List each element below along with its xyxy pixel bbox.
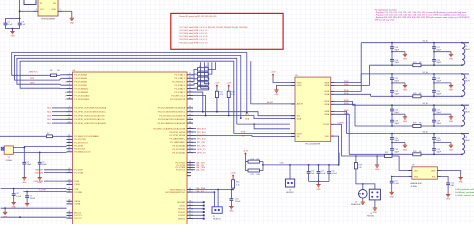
svg-text:31: 31 [189, 73, 191, 75]
svg-text:41: 41 [189, 114, 191, 116]
svg-text:P6.4/CB4/A4: P6.4/CB4/A4 [74, 74, 87, 77]
svg-text:18pF: 18pF [394, 81, 399, 83]
svg-text:P4.3/PM_UCB1STE/UCA1CLK: P4.3/PM_UCB1STE/UCA1CLK [74, 118, 105, 121]
svg-text:Board ID given by R1, R2, R3,: Board ID given by R1, R2, R3, R4, R5 [180, 15, 218, 18]
svg-text:40: 40 [189, 110, 191, 112]
svg-text:60: 60 [189, 207, 191, 209]
svg-text:LDC1614 addr EVM: 0 0 1 0 0: LDC1614 addr EVM: 0 0 1 0 0 [180, 35, 209, 38]
svg-text:GND: GND [446, 199, 451, 201]
svg-text:P2.0/TA1.1: P2.0/TA1.1 [174, 74, 186, 77]
svg-text:4: 4 [69, 83, 70, 85]
svg-text:44: 44 [189, 127, 191, 129]
svg-text:35: 35 [189, 87, 191, 89]
svg-text:3: 3 [69, 80, 70, 82]
svg-text:P5.5/XOUT: P5.5/XOUT [74, 149, 86, 151]
svg-text:C=DNI(std.): osc disabled ext: C=DNI(std.): osc disabled ext [455, 191, 474, 194]
svg-text:LDC1612 addr EVM: 0 0 0 1 0: LDC1612 addr EVM: 0 0 0 1 0 [180, 29, 209, 32]
svg-text:43: 43 [189, 121, 191, 123]
svg-text:18: 18 [68, 147, 70, 149]
svg-text:CLKIN: CLKIN [323, 124, 330, 126]
svg-text:R6: R6 [50, 70, 52, 72]
svg-text:L8: L8 [465, 137, 467, 139]
svg-text:LDC1614 addr EVM: 0 0 0 1 1: LDC1614 addr EVM: 0 0 0 1 1 [180, 32, 209, 35]
svg-text:VCC: VCC [40, 9, 45, 11]
svg-text:23: 23 [68, 183, 70, 185]
svg-text:P4.6/PM_NONE: P4.6/PM_NONE [169, 132, 185, 134]
svg-text:22: 22 [68, 179, 70, 181]
svg-text:P7.3/CB11/A15: P7.3/CB11/A15 [74, 98, 90, 101]
svg-text:P5.1/ADC12CLK/DMAE0: P5.1/ADC12CLK/DMAE0 [74, 135, 99, 138]
svg-text:42: 42 [189, 118, 191, 120]
svg-text:AVCC1: AVCC1 [74, 212, 82, 215]
svg-text:P3.2/UCB0CLK/UCA0STE: P3.2/UCB0CLK/UCA0STE [159, 114, 185, 117]
svg-text:HDR1X2: HDR1X2 [213, 219, 220, 221]
svg-text:PUR: PUR [74, 181, 79, 183]
svg-text:PU.1/DM: PU.1/DM [74, 172, 83, 174]
svg-text:51: 51 [189, 151, 191, 153]
svg-text:7: 7 [69, 94, 70, 96]
svg-text:RTB: RTB [30, 78, 35, 80]
svg-text:10: 10 [68, 110, 70, 112]
svg-text:48: 48 [189, 141, 191, 143]
svg-text:P3.3/UCA0TXD/UCA0SIMO: P3.3/UCA0TXD/UCA0SIMO [158, 118, 186, 121]
svg-text:VDD: VDD [325, 136, 330, 138]
svg-text:DVSS2: DVSS2 [178, 215, 186, 217]
svg-text:SD: SD [297, 136, 300, 138]
svg-text:P3.0/UCB0SIMO/UCB0SDA: P3.0/UCB0SIMO/UCB0SDA [158, 107, 186, 110]
svg-text:R28: R28 [413, 123, 416, 125]
svg-text:38: 38 [189, 97, 191, 99]
svg-text:SDA: SDA [245, 118, 250, 121]
svg-text:18pF: 18pF [394, 140, 399, 142]
svg-text:33pF: 33pF [436, 62, 441, 64]
svg-text:HDR1X2: HDR1X2 [286, 192, 293, 194]
svg-text:VBUS: VBUS [74, 201, 80, 203]
svg-text:INT_CH2: INT_CH2 [197, 146, 206, 148]
svg-text:+3.3V: +3.3V [214, 83, 220, 85]
svg-text:VDD: VDD [280, 163, 285, 165]
svg-text:DNI: DNI [451, 185, 455, 187]
svg-text:GND: GND [38, 182, 43, 184]
svg-text:P6.0/CB0/A0: P6.0/CB0/A0 [173, 145, 186, 148]
svg-text:GND: GND [390, 197, 395, 199]
svg-text:LDC1612 addr EVM: 0 0 0 0 1 (R: LDC1612 addr EVM: 0 0 0 0 1 (R1=0R, R2=0… [180, 26, 248, 29]
svg-text:4.7uF: 4.7uF [16, 196, 22, 198]
svg-text:18pF: 18pF [436, 112, 441, 114]
svg-text:GND: GND [10, 36, 15, 38]
svg-text:VSSU: VSSU [74, 184, 80, 186]
svg-text:AVSS1: AVSS1 [178, 208, 186, 211]
svg-text:11: 11 [68, 114, 70, 116]
svg-text:SDA: SDA [297, 117, 302, 120]
svg-text:GND: GND [52, 9, 57, 11]
svg-text:P5.6/ADC12CLK: P5.6/ADC12CLK [74, 151, 91, 154]
svg-text:PU.0/DP: PU.0/DP [74, 170, 83, 172]
svg-text:37: 37 [189, 94, 191, 96]
svg-text:R7: R7 [47, 133, 49, 135]
svg-text:36: 36 [189, 90, 191, 92]
svg-text:P2.6/RTCCLK: P2.6/RTCCLK [171, 95, 185, 97]
svg-text:SBWTCK: SBWTCK [29, 71, 38, 73]
svg-text:P3.4/UCA0RXD/UCA0SOMI: P3.4/UCA0RXD/UCA0SOMI [158, 122, 186, 125]
svg-text:R26: R26 [413, 93, 416, 95]
svg-text:GND: GND [229, 211, 234, 213]
svg-text:P4.1/PM_UCB1SOMI/UCB1SCL: P4.1/PM_UCB1SOMI/UCB1SCL [74, 112, 107, 114]
svg-text:220nF: 220nF [235, 201, 241, 203]
svg-text:18uH: 18uH [465, 49, 470, 51]
svg-text:8: 8 [69, 97, 70, 99]
svg-text:39: 39 [189, 106, 191, 108]
svg-text:27: 27 [68, 202, 70, 204]
svg-text:GND: GND [431, 171, 436, 173]
svg-text:IN0A: IN0A [324, 84, 329, 87]
svg-text:P7.0/CB8/A12: P7.0/CB8/A12 [74, 87, 89, 90]
svg-text:16: 16 [68, 141, 70, 143]
svg-text:4: 4 [36, 9, 37, 11]
svg-text:RF2_SD2: RF2_SD2 [197, 132, 207, 134]
svg-text:33: 33 [189, 80, 191, 82]
svg-text:33pF: 33pF [436, 93, 441, 95]
svg-text:47: 47 [189, 137, 191, 139]
svg-text:P4.2/PM_UCB1CLK/UCA1STE: P4.2/PM_UCB1CLK/UCA1STE [74, 114, 105, 117]
svg-text:VSSU: VSSU [179, 205, 185, 207]
svg-text:25: 25 [68, 190, 70, 192]
svg-text:L5: L5 [465, 46, 467, 48]
svg-text:R30: R30 [413, 151, 416, 153]
svg-text:58: 58 [189, 201, 191, 203]
svg-text:GND: GND [403, 149, 408, 151]
svg-text:GND: GND [375, 169, 380, 171]
svg-text:34: 34 [189, 83, 191, 85]
svg-text:INTB: INTB [297, 133, 303, 135]
svg-text:61: 61 [189, 210, 191, 212]
svg-text:GPxPA2: GPxPA2 [177, 201, 186, 204]
svg-text:IN1A: IN1A [324, 93, 329, 96]
svg-text:GND: GND [316, 189, 321, 191]
svg-text:P2.3/TA2.0: P2.3/TA2.0 [174, 84, 186, 87]
svg-text:P7.1/CB9/A13: P7.1/CB9/A13 [74, 91, 89, 94]
svg-text:VUSB: VUSB [74, 204, 80, 206]
svg-text:24 MHz: 24 MHz [6, 160, 13, 162]
svg-text:GPIO_P1: GPIO_P1 [197, 149, 206, 151]
svg-text:R19: R19 [358, 164, 361, 166]
svg-text:P5.2/XT2IN: P5.2/XT2IN [74, 139, 86, 141]
svg-text:18pF: 18pF [436, 49, 441, 51]
svg-text:S1_A: S1_A [423, 71, 429, 74]
svg-text:18uH: 18uH [465, 140, 470, 142]
svg-text:1: 1 [69, 73, 70, 75]
svg-text:J5: J5 [213, 216, 215, 218]
svg-text:+3.3V: +3.3V [230, 173, 236, 175]
svg-text:CAL_SCL: CAL_SCL [196, 190, 206, 193]
svg-text:FDC2214 addr EVM: 0 0 1 1 0: FDC2214 addr EVM: 0 0 1 1 0 [180, 41, 209, 44]
svg-text:GND: GND [449, 90, 454, 92]
svg-text:GND: GND [449, 149, 454, 151]
svg-text:P5.3/XT2OUT: P5.3/XT2OUT [74, 142, 88, 144]
svg-text:26: 26 [68, 200, 70, 202]
svg-text:P2.4/TA2.1: P2.4/TA2.1 [174, 87, 186, 90]
svg-text:2: 2 [69, 77, 70, 79]
svg-text:IN1B: IN1B [324, 91, 329, 93]
svg-text:FDC2114 addr EVM: 0 0 1 1 1: FDC2114 addr EVM: 0 0 1 1 1 [180, 38, 209, 41]
svg-text:C=100nF: external clock input: C=100nF: external clock input [455, 194, 474, 197]
svg-text:18uH: 18uH [465, 112, 470, 114]
svg-text:P4.5/PM_UCA1RXD/UCA1SOMI: P4.5/PM_UCA1RXD/UCA1SOMI [153, 127, 185, 130]
svg-text:GND: GND [297, 85, 302, 87]
svg-text:0.01uF: 0.01uF [331, 173, 338, 175]
svg-text:19: 19 [68, 150, 70, 152]
svg-text:GPIO_P2: GPIO_P2 [197, 152, 206, 154]
svg-text:P2.7/UCB0STE: P2.7/UCB0STE [170, 99, 186, 101]
svg-text:50: 50 [189, 148, 191, 150]
svg-text:P6.2/CB2/A2: P6.2/CB2/A2 [173, 151, 186, 154]
svg-text:12: 12 [68, 118, 70, 120]
svg-text:P2.2/TA2CLK: P2.2/TA2CLK [172, 81, 186, 84]
svg-text:RF0_SC0: RF0_SC0 [197, 139, 207, 141]
svg-text:VCORE: VCORE [74, 192, 82, 194]
svg-text:GND: GND [403, 90, 408, 92]
svg-text:ADDR: ADDR [267, 101, 273, 104]
svg-text:P6.7/CB7/A7: P6.7/CB7/A7 [74, 84, 87, 87]
svg-text:E/D: E/D [432, 177, 436, 179]
svg-text:GND: GND [449, 59, 454, 61]
svg-text:55: 55 [189, 168, 191, 170]
svg-text:R22: R22 [385, 152, 388, 154]
svg-text:AVSS2: AVSS2 [178, 217, 186, 220]
svg-text:P6.6/CB6/A6: P6.6/CB6/A6 [74, 81, 87, 84]
svg-text:2: 2 [60, 9, 61, 11]
svg-text:33pF: 33pF [394, 123, 399, 125]
svg-text:DVSS1: DVSS1 [178, 212, 186, 214]
svg-text:P7.2/CB10/A14: P7.2/CB10/A14 [74, 94, 90, 97]
svg-text:40 MHz: 40 MHz [411, 186, 418, 188]
svg-text:33pF: 33pF [394, 93, 399, 95]
svg-text:GND: GND [403, 121, 408, 123]
svg-text:R17: R17 [251, 174, 254, 176]
svg-text:P3.1/UCB0SOMI/UCB0SCL: P3.1/UCB0SOMI/UCB0SCL [158, 112, 186, 114]
svg-text:L6: L6 [465, 77, 467, 79]
svg-text:PWD: PWD [297, 82, 303, 84]
svg-text:CAL_TCK: CAL_TCK [196, 169, 206, 172]
svg-text:+3.3V: +3.3V [226, 83, 232, 85]
svg-text:33pF: 33pF [436, 123, 441, 125]
svg-text:GND: GND [70, 22, 75, 24]
svg-text:10k: 10k [358, 167, 361, 169]
svg-text:30: 30 [68, 216, 70, 218]
svg-text:18pF: 18pF [394, 112, 399, 114]
svg-text:4.7k: 4.7k [236, 185, 240, 187]
svg-text:P2.1/TA1.2: P2.1/TA1.2 [174, 77, 186, 80]
svg-text:6: 6 [69, 90, 70, 92]
svg-text:TPS76633DBV: TPS76633DBV [41, 18, 56, 20]
svg-text:17: 17 [68, 144, 70, 146]
svg-text:DNI: DNI [257, 174, 261, 176]
svg-text:VCORE: VCORE [39, 190, 47, 192]
svg-text:18pF: 18pF [394, 49, 399, 51]
svg-text:21: 21 [68, 171, 70, 173]
svg-text:P4.0/PM_UCB1SIMO/UCB1SDA: P4.0/PM_UCB1SIMO/UCB1SDA [74, 107, 107, 110]
svg-text:L7: L7 [465, 109, 467, 111]
svg-text:DVCC2: DVCC2 [74, 218, 82, 220]
svg-text:P6.1/CB1/A1: P6.1/CB1/A1 [173, 148, 186, 151]
svg-text:18uH: 18uH [465, 80, 470, 82]
svg-text:HDR2X2: HDR2X2 [367, 216, 374, 218]
svg-text:INT_CH1: INT_CH1 [197, 142, 206, 144]
svg-text:S0_A: S0_A [423, 40, 429, 43]
svg-text:59: 59 [189, 204, 191, 206]
svg-text:GND: GND [449, 121, 454, 123]
svg-text:14: 14 [68, 135, 70, 137]
svg-text:IN2B: IN2B [324, 101, 329, 103]
svg-text:GND: GND [30, 82, 35, 84]
svg-text:33pF: 33pF [394, 151, 399, 153]
svg-text:63: 63 [189, 217, 191, 219]
svg-text:GND: GND [403, 59, 408, 61]
svg-text:P2.5/TA2.2: P2.5/TA2.2 [174, 91, 186, 94]
svg-text:33pF: 33pF [436, 151, 441, 153]
svg-text:13: 13 [68, 121, 70, 123]
svg-text:18pF: 18pF [436, 81, 441, 83]
svg-text:P4.4/PM_UCA1TXD/UCA1SIMO: P4.4/PM_UCA1TXD/UCA1SIMO [74, 122, 106, 125]
svg-text:P5.4/XIN: P5.4/XIN [74, 145, 83, 147]
svg-text:IN3B: IN3B [324, 111, 329, 113]
svg-text:45: 45 [189, 130, 191, 132]
svg-text:+3.3V: +3.3V [243, 151, 249, 153]
svg-text:VDD: VDD [414, 177, 419, 179]
svg-text:GND: GND [373, 212, 378, 214]
svg-text:DNI text will stay white: DNI text will stay white [375, 19, 395, 22]
svg-text:57: 57 [189, 190, 191, 192]
svg-text:PJ.3/TCK: PJ.3/TCK [176, 170, 186, 172]
svg-text:CAL_SDA: CAL_SDA [196, 187, 206, 190]
svg-text:P6.5/CB5/A5: P6.5/CB5/A5 [74, 77, 87, 80]
svg-text:46: 46 [189, 134, 191, 136]
svg-text:S2_A: S2_A [423, 102, 429, 105]
svg-text:CLKIN: CLKIN [338, 122, 344, 124]
svg-text:P5.1/A9/VREF-: P5.1/A9/VREF- [170, 141, 185, 144]
svg-text:IN2A: IN2A [324, 103, 329, 106]
svg-text:INTB: INTB [241, 132, 246, 134]
svg-text:RF3_SD4: RF3_SD4 [197, 128, 207, 130]
svg-text:GND: GND [459, 182, 464, 184]
svg-text:R24: R24 [413, 62, 416, 64]
svg-text:220nF: 220nF [30, 198, 36, 200]
svg-text:FDC2214RGHR: FDC2214RGHR [305, 144, 320, 146]
svg-text:ADDR: ADDR [297, 103, 304, 106]
svg-text:33pF: 33pF [394, 62, 399, 64]
svg-text:S3_A: S3_A [423, 131, 429, 134]
svg-text:62: 62 [189, 214, 191, 216]
svg-text:R16: R16 [251, 159, 254, 161]
svg-text:ASEMB-40M: ASEMB-40M [411, 182, 422, 185]
svg-text:P5.0/A8/VREF+: P5.0/A8/VREF+ [170, 138, 186, 141]
svg-text:IN0B: IN0B [324, 82, 329, 84]
svg-text:IN3A: IN3A [324, 113, 329, 116]
svg-text:10 uF: 10 uF [7, 24, 13, 26]
svg-text:32: 32 [189, 77, 191, 79]
svg-text:R15: R15 [236, 182, 239, 184]
svg-text:29: 29 [68, 214, 70, 216]
svg-text:5: 5 [69, 87, 70, 89]
svg-text:R5: R5 [199, 85, 201, 87]
svg-text:20: 20 [68, 168, 70, 170]
svg-text:RST/NMI/SBWTDIO: RST/NMI/SBWTDIO [165, 192, 185, 194]
svg-text:4.7k: 4.7k [220, 94, 224, 96]
svg-text:USB_DM: USB_DM [35, 172, 44, 174]
svg-text:1M: 1M [57, 70, 60, 72]
svg-text:GND: GND [22, 182, 27, 184]
svg-text:49: 49 [189, 144, 191, 146]
svg-text:DVCC1: DVCC1 [74, 215, 82, 217]
svg-text:SMA-EDGE: SMA-EDGE [351, 203, 361, 206]
svg-text:15: 15 [68, 138, 70, 140]
svg-text:C=0R populated: oscillator on: C=0R populated: oscillator on [455, 188, 474, 191]
svg-text:9: 9 [69, 106, 70, 108]
svg-text:GND: GND [274, 94, 279, 96]
svg-text:RF1_SC1: RF1_SC1 [197, 135, 207, 137]
svg-text:+3.3V: +3.3V [270, 72, 276, 74]
svg-text:P4.7/PM_NONE: P4.7/PM_NONE [169, 135, 185, 137]
svg-text:4.7k: 4.7k [231, 94, 235, 96]
svg-text:18pF: 18pF [436, 140, 441, 142]
